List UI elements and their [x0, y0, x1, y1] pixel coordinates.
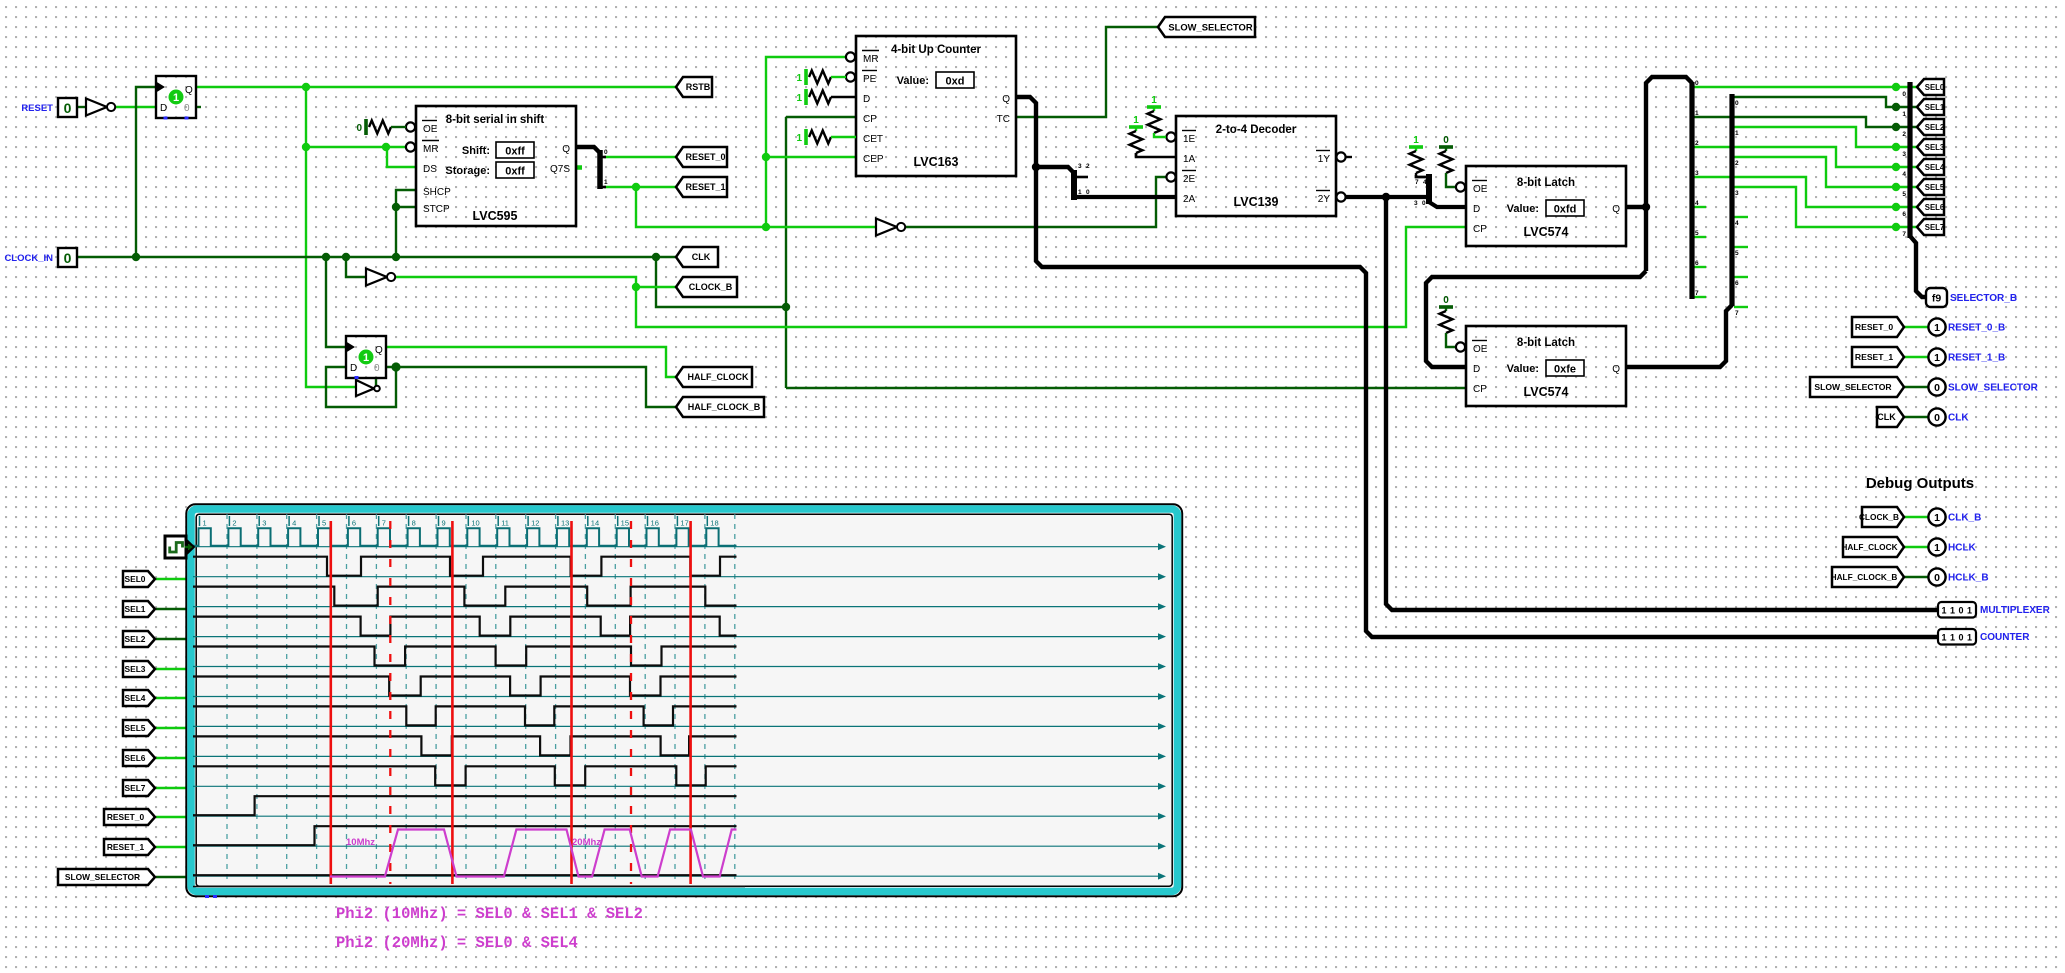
wire CLOCK_IN to NOT2 [346, 257, 366, 277]
wire FF2 feedback [326, 367, 396, 407]
wire to LVC163 CEP [766, 156, 856, 158]
inverter NOT2 (CLOCK_B) [366, 269, 395, 286]
svg-text:CP: CP [1473, 224, 1487, 235]
junction CLOCK_B [632, 283, 640, 291]
svg-text:SLOW_SELECTOR: SLOW_SELECTOR [65, 872, 140, 882]
svg-text:3: 3 [1695, 170, 1699, 177]
svg-text:DS: DS [423, 164, 437, 175]
svg-text:13: 13 [561, 519, 569, 528]
junction reset chain [762, 223, 770, 231]
svg-text:1: 1 [1934, 322, 1940, 334]
svg-text:0: 0 [1695, 80, 1699, 87]
scope trace SEL2 [193, 617, 737, 636]
svg-text:0xfd: 0xfd [1554, 204, 1577, 216]
output MULTIPLEXER value box [1938, 602, 2051, 618]
svg-text:SEL1: SEL1 [125, 604, 146, 614]
svg-text:12: 12 [531, 519, 539, 528]
svg-text:RESET: RESET [21, 103, 53, 114]
scope red dashed cursor lines [390, 521, 631, 884]
wire SEL1 net [1734, 97, 1918, 107]
tag RESET_0 (scope input) [104, 809, 155, 825]
bus splitter out 0 [600, 156, 606, 159]
svg-text:CLK: CLK [1948, 413, 1969, 424]
svg-text:7: 7 [1415, 179, 1419, 186]
svg-text:Q: Q [1002, 94, 1010, 105]
IC U5 LVC574 8-bit latch (lower) [1466, 326, 1626, 406]
junction SEL7 [1892, 223, 1900, 231]
wire SEL7 net [1734, 187, 1918, 227]
input RESET [58, 98, 77, 117]
tag SEL5 (source) [1917, 179, 1945, 195]
tag SEL0 (scope input) [123, 571, 155, 587]
resistor pull-down OE latch1 [1439, 135, 1455, 187]
svg-text:HALF_CLOCK_B: HALF_CLOCK_B [688, 402, 761, 412]
svg-text:1E: 1E [1183, 134, 1196, 145]
wire splitter2 stub 6 [1734, 276, 1748, 278]
svg-text:SLOW_SELECTOR: SLOW_SELECTOR [1168, 21, 1252, 32]
wire NOT4 out to 2E [903, 177, 1166, 227]
svg-text:3: 3 [1735, 190, 1739, 197]
svg-text:3: 3 [262, 519, 266, 528]
scope clock input icon [165, 536, 194, 558]
wire SEL3 net [1734, 127, 1918, 147]
svg-text:D: D [1473, 364, 1480, 375]
output COUNTER value box [1938, 629, 2030, 645]
wire SLOW_SELECTOR to probe [1904, 386, 1929, 388]
scope row axes with arrows [193, 543, 1166, 879]
wire to CLK tag [656, 256, 676, 258]
scope trace SEL3 [193, 647, 737, 666]
wire NOT1 out to FF1 D [113, 106, 156, 108]
scope trace SLOW_SELECTOR [193, 874, 737, 876]
svg-text:7: 7 [382, 519, 386, 528]
svg-text:Storage:: Storage: [445, 165, 490, 177]
svg-text:f9: f9 [1932, 293, 1941, 305]
tag SEL7 (scope input) [123, 780, 155, 796]
svg-text:SEL5: SEL5 [1925, 183, 1945, 192]
scope Phi2 analog trace [330, 830, 737, 877]
svg-text:HALF_CLOCK: HALF_CLOCK [1841, 542, 1897, 552]
output HCLK [1928, 538, 1976, 555]
bubble OE latch2 [1456, 342, 1465, 351]
scope bottom axis line [193, 886, 745, 888]
wire splitter1 stub 5 [1694, 236, 1706, 238]
junction SEL2 [1892, 123, 1900, 131]
tag RESET_1 (ref) [1852, 347, 1904, 367]
svg-text:D: D [160, 103, 167, 114]
tag SEL4 (scope input) [123, 690, 155, 706]
junction CLK down [782, 303, 790, 311]
junction SEL1 [1892, 103, 1900, 111]
scope trace SEL4 [193, 677, 737, 696]
svg-text:RESET_0: RESET_0 [1855, 322, 1893, 332]
scope Phi2 labels [346, 837, 601, 848]
svg-text:1: 1 [796, 93, 802, 104]
svg-text:SELECTOR_B: SELECTOR_B [1950, 293, 2017, 304]
bus latch1 Q up to splitter1 [1646, 77, 1692, 271]
bus merger SELECTOR_B bar [1902, 82, 1910, 238]
svg-text:1: 1 [1151, 95, 1157, 106]
svg-text:Q7S: Q7S [550, 164, 570, 175]
output SLOW_SELECTOR [1928, 378, 2038, 395]
output CLK [1928, 408, 1969, 425]
wire CP of LVC163 [786, 116, 856, 118]
tag RESET_1 (source) [676, 177, 727, 197]
wire CLOCK_B long to latch1 CP [636, 227, 1466, 327]
flip-flop FF1 (reset sync) [156, 76, 196, 118]
svg-text:2-to-4 Decoder: 2-to-4 Decoder [1216, 124, 1297, 136]
svg-text:1: 1 [796, 73, 802, 84]
bubble OE latch1 [1456, 182, 1465, 191]
svg-text:4-bit Up Counter: 4-bit Up Counter [891, 44, 982, 56]
tag RESET_0 (source) [676, 147, 727, 167]
scope trace RESET_1 [193, 826, 737, 845]
bus merger 7-4/3-0 bar [1414, 174, 1429, 207]
svg-text:2Y: 2Y [1318, 194, 1331, 205]
svg-text:0: 0 [356, 123, 362, 134]
wire CLK to probe [1904, 416, 1929, 418]
wire SEL4 net [1694, 147, 1918, 167]
wire Q7S stub [575, 165, 582, 170]
svg-text:5: 5 [322, 519, 326, 528]
resistor pull-up 1E [1147, 95, 1166, 137]
svg-text:0: 0 [374, 363, 380, 374]
svg-text:7: 7 [1902, 231, 1906, 238]
svg-text:RESET_1: RESET_1 [107, 842, 145, 852]
wire splitter2 stub 4 [1734, 216, 1748, 218]
svg-text:9: 9 [441, 519, 445, 528]
wire CLOCK_B to probe [1904, 516, 1929, 518]
svg-text:Value:: Value: [897, 75, 929, 87]
svg-text:SEL0: SEL0 [125, 574, 146, 584]
svg-text:PE: PE [863, 74, 877, 85]
bubble 1E [1166, 132, 1175, 141]
resistor pull-up 1A [1129, 115, 1143, 157]
svg-text:5: 5 [1695, 230, 1699, 237]
svg-text:OE: OE [1473, 344, 1488, 355]
bus latch1 Q to latch2 D [1426, 271, 1646, 367]
wire SEL5 net [1734, 157, 1918, 187]
tag SEL2 (source) [1917, 119, 1945, 135]
wire CLK down [656, 257, 786, 307]
junction DS [382, 143, 390, 151]
inverter NOT4 (2E driver) [876, 219, 905, 236]
wire SEL1 to scope [156, 608, 189, 610]
svg-text:SLOW_SELECTOR: SLOW_SELECTOR [1948, 383, 2039, 394]
wire splitter2 stub 5 [1734, 246, 1748, 248]
wire TC to SLOW_SELECTOR tag [1016, 27, 1159, 117]
junction CLK tag [652, 253, 660, 261]
svg-text:CLK_B: CLK_B [1948, 513, 1981, 524]
bubble MR LVC595 [406, 142, 415, 151]
svg-text:CLOCK_B: CLOCK_B [1859, 512, 1899, 522]
wire CLOCK_IN to SHCP [396, 190, 416, 257]
output SELECTOR_B value box [1926, 288, 2017, 307]
svg-text:SEL3: SEL3 [1925, 143, 1945, 152]
tag SLOW_SELECTOR (scope input) [58, 869, 155, 885]
bus LVC595 Q to splitter [576, 147, 600, 189]
wire CLK to latch2 CP [786, 387, 1466, 389]
svg-text:SEL7: SEL7 [125, 783, 146, 793]
junction FF1 clk [132, 253, 140, 261]
bus splitter LVC595 Q bar [600, 149, 608, 189]
svg-text:LVC139: LVC139 [1234, 195, 1279, 209]
junction NOT2 [342, 253, 350, 261]
svg-text:4: 4 [1423, 179, 1427, 186]
svg-text:MR: MR [423, 144, 439, 155]
tag SEL7 (source) [1917, 219, 1944, 235]
scope trace SEL6 [193, 736, 737, 755]
bus splitter 3-2/1-0 bar [1074, 163, 1090, 200]
bus 2Y to merger [1346, 195, 1429, 199]
svg-text:8-bit serial in shift: 8-bit serial in shift [446, 114, 545, 126]
svg-text:17: 17 [680, 519, 688, 528]
wire RESET to NOT1 [77, 106, 86, 108]
wire RESET_1 to probe [1904, 356, 1929, 358]
svg-text:RESET_1: RESET_1 [1855, 352, 1893, 362]
label CLOCK_IN [4, 253, 53, 264]
wire RESET_1 from splitter [604, 186, 676, 188]
tag RSTB [676, 77, 712, 97]
wire to LVC163 MR [766, 57, 846, 227]
svg-text:20Mhz: 20Mhz [572, 837, 601, 848]
svg-text:2: 2 [1086, 163, 1090, 170]
wire SEL5 to scope [156, 727, 189, 729]
resistor pull-up CET [796, 129, 856, 145]
svg-text:16: 16 [651, 519, 659, 528]
tag SEL3 (source) [1917, 139, 1945, 155]
wire STCP stub [396, 206, 416, 208]
bubble MR LVC163 [846, 52, 855, 61]
svg-text:SEL4: SEL4 [1925, 163, 1945, 172]
tag CLK (source) [676, 247, 718, 267]
bus LVC163 Q to COUNTER [1016, 97, 1938, 637]
bus merger out to latch1 D [1429, 202, 1466, 207]
svg-text:D: D [350, 363, 357, 374]
bus merger in hi [1416, 175, 1429, 177]
svg-text:SEL4: SEL4 [125, 693, 146, 703]
svg-text:0: 0 [1934, 382, 1940, 394]
tag SEL5 (scope input) [123, 720, 155, 736]
output HCLK_B [1928, 568, 1988, 585]
svg-text:1: 1 [1902, 111, 1906, 118]
svg-text:CEP: CEP [863, 154, 884, 165]
svg-text:HCLK_B: HCLK_B [1948, 573, 1989, 584]
label Phi2 20Mhz equation [336, 934, 578, 952]
svg-text:CP: CP [1473, 384, 1487, 395]
IC U4 LVC574 8-bit latch (upper) [1466, 166, 1626, 246]
svg-text:0xff: 0xff [505, 166, 525, 178]
svg-text:CET: CET [863, 134, 883, 145]
svg-text:Q: Q [375, 345, 383, 356]
svg-text:HALF_CLOCK_B: HALF_CLOCK_B [1831, 572, 1898, 582]
scope trace SEL0 [193, 557, 737, 576]
resistor pull-down OE latch2 [1439, 295, 1455, 347]
svg-text:COUNTER: COUNTER [1980, 632, 2030, 643]
svg-text:10: 10 [471, 519, 479, 528]
svg-text:CLOCK_IN: CLOCK_IN [4, 253, 53, 264]
svg-text:Shift:: Shift: [462, 145, 490, 157]
scope red cursor lines [331, 521, 691, 884]
svg-text:15: 15 [621, 519, 629, 528]
tag SEL4 (source) [1917, 159, 1945, 175]
svg-text:8: 8 [412, 519, 416, 528]
svg-text:1: 1 [796, 133, 802, 144]
svg-text:18: 18 [710, 519, 718, 528]
inverter NOT3 (FF2 feedback) [356, 380, 380, 396]
scope trace SEL7 [193, 766, 737, 785]
svg-text:RESET_1: RESET_1 [685, 182, 725, 192]
junction bus counter Q [1032, 163, 1040, 171]
scope dashed gridlines [227, 514, 735, 884]
tag HALF_CLOCK_B (ref) [1831, 567, 1904, 587]
svg-text:1: 1 [203, 519, 207, 528]
output RESET_0_B [1928, 318, 2005, 335]
svg-text:1Y: 1Y [1318, 154, 1331, 165]
resistor pull-up merger hi [1409, 135, 1427, 177]
svg-text:MR: MR [863, 54, 879, 65]
svg-text:0: 0 [1934, 572, 1940, 584]
svg-text:CLOCK_B: CLOCK_B [689, 282, 733, 292]
bubble OE LVC595 [406, 122, 415, 131]
wire NOT2 out CLOCK_B [394, 277, 636, 287]
bubble 2E [1166, 172, 1175, 181]
output RESET_1_B [1928, 348, 2005, 365]
wire MR of LVC595 [306, 146, 416, 148]
wire CLK vertical to counter CP [785, 117, 787, 388]
svg-text:2: 2 [1695, 140, 1699, 147]
resistor pull-up D LVC163 [796, 89, 856, 105]
wire SEL6 net [1694, 177, 1918, 207]
tag SEL3 (scope input) [123, 661, 155, 677]
wire SEL0 net [1694, 86, 1918, 88]
svg-text:0: 0 [64, 250, 72, 266]
tag CLK (ref) [1877, 407, 1904, 427]
svg-text:LVC163: LVC163 [914, 155, 959, 169]
svg-text:0: 0 [1422, 200, 1426, 207]
svg-text:LVC595: LVC595 [473, 209, 518, 223]
IC U2 LVC163 4-bit up counter [856, 36, 1016, 176]
svg-text:11: 11 [501, 519, 509, 528]
svg-text:2E: 2E [1183, 174, 1196, 185]
svg-text:HALF_CLOCK: HALF_CLOCK [688, 372, 749, 382]
svg-text:1: 1 [1934, 542, 1940, 554]
svg-text:D: D [1473, 204, 1480, 215]
svg-text:0: 0 [1735, 100, 1739, 107]
svg-text:LVC574: LVC574 [1524, 385, 1569, 399]
svg-text:2: 2 [1902, 131, 1906, 138]
wire HALF_CLOCK to probe [1904, 546, 1929, 548]
junction SEL3 [1892, 143, 1900, 151]
svg-text:STCP: STCP [423, 204, 450, 215]
junction bus 2Y [1382, 193, 1390, 201]
svg-text:OE: OE [1473, 184, 1488, 195]
svg-text:Q: Q [1612, 364, 1620, 375]
wire DS of LVC595 [387, 147, 416, 167]
tag CLOCK_B (source) [676, 277, 737, 297]
scope clock trace [193, 528, 737, 546]
wire splitter1 stub 6 [1694, 266, 1706, 268]
wire CLOCK_IN to FF1 clock [136, 87, 156, 257]
svg-text:Phi2 (20Mhz) = SEL0 & SEL4: Phi2 (20Mhz) = SEL0 & SEL4 [336, 934, 578, 952]
flip-flop FF2 blue mark [355, 376, 359, 379]
wire SEL4 to scope [156, 697, 189, 699]
wire 1Y stub [1346, 156, 1352, 158]
svg-text:SHCP: SHCP [423, 187, 451, 198]
tag RESET_0 (ref) [1852, 317, 1904, 337]
svg-text:4: 4 [1735, 220, 1739, 227]
svg-text:HCLK: HCLK [1948, 543, 1977, 554]
scope clock tick numbers and marks [200, 516, 719, 528]
svg-text:3: 3 [1078, 163, 1082, 170]
wire FF2 Q to HALF_CLOCK tag [386, 347, 676, 377]
junction bus latch1 Q [1642, 203, 1650, 211]
tag SEL2 (scope input) [123, 631, 155, 647]
junction STCP [392, 203, 400, 211]
svg-text:SEL6: SEL6 [125, 753, 146, 763]
wire FF1 Qn stub [196, 106, 201, 108]
svg-text:SEL5: SEL5 [125, 723, 146, 733]
svg-text:2A: 2A [1183, 194, 1196, 205]
wire splitter2 stub 7 [1734, 306, 1748, 308]
tag SEL6 (source) [1917, 199, 1945, 215]
svg-text:1: 1 [1934, 512, 1940, 524]
svg-text:Q: Q [185, 85, 193, 96]
svg-text:CP: CP [863, 114, 877, 125]
wire SEL2 to scope [156, 638, 189, 640]
svg-text:CLK: CLK [692, 252, 711, 262]
junction SEL4 [1892, 163, 1900, 171]
bus splitter hi stub [1074, 176, 1088, 179]
svg-text:7: 7 [1735, 310, 1739, 317]
wire RESET_0 to probe [1904, 326, 1929, 328]
wire SEL3 to scope [156, 668, 189, 670]
scope selection marks [205, 895, 217, 898]
tag HALF_CLOCK (ref) [1841, 537, 1904, 557]
wire SEL2 net [1694, 117, 1918, 127]
label Phi2 10Mhz equation [336, 905, 643, 923]
tag HALF_CLOCK (source) [676, 367, 752, 387]
svg-text:1 1 0 1: 1 1 0 1 [1941, 633, 1972, 643]
scope panel frame [186, 504, 1182, 896]
inverter NOT1 (RESET) [86, 99, 115, 116]
svg-text:SEL2: SEL2 [1925, 123, 1945, 132]
svg-text:6: 6 [1735, 280, 1739, 287]
wire NOT3 out [375, 377, 377, 389]
junction SHCP/STCP [392, 253, 400, 261]
svg-text:4: 4 [1695, 200, 1699, 207]
svg-text:1: 1 [1934, 352, 1940, 364]
svg-text:1 1 0 1: 1 1 0 1 [1941, 606, 1972, 616]
svg-text:1: 1 [1735, 130, 1739, 137]
svg-text:1A: 1A [1183, 154, 1196, 165]
input CLOCK_IN [58, 248, 77, 267]
tag SLOW_SELECTOR (ref) [1810, 377, 1904, 397]
wire splitter1 stub 4 [1694, 206, 1706, 208]
svg-text:0: 0 [1443, 295, 1449, 306]
svg-text:D: D [863, 94, 870, 105]
bus splitter lo to 2A [1074, 195, 1176, 199]
svg-text:1: 1 [1695, 110, 1699, 117]
svg-text:14: 14 [591, 519, 599, 528]
bus merger to SELECTOR_B output [1910, 236, 1927, 297]
IC U3 LVC139 2-to-4 decoder [1176, 116, 1336, 216]
wire SEL7 to scope [156, 787, 189, 789]
IC U1 LVC595 8-bit serial in shift [416, 106, 576, 226]
junction FF2 clk [322, 253, 330, 261]
svg-text:OE: OE [423, 124, 438, 135]
tag RESET_1 (scope input) [104, 839, 155, 855]
